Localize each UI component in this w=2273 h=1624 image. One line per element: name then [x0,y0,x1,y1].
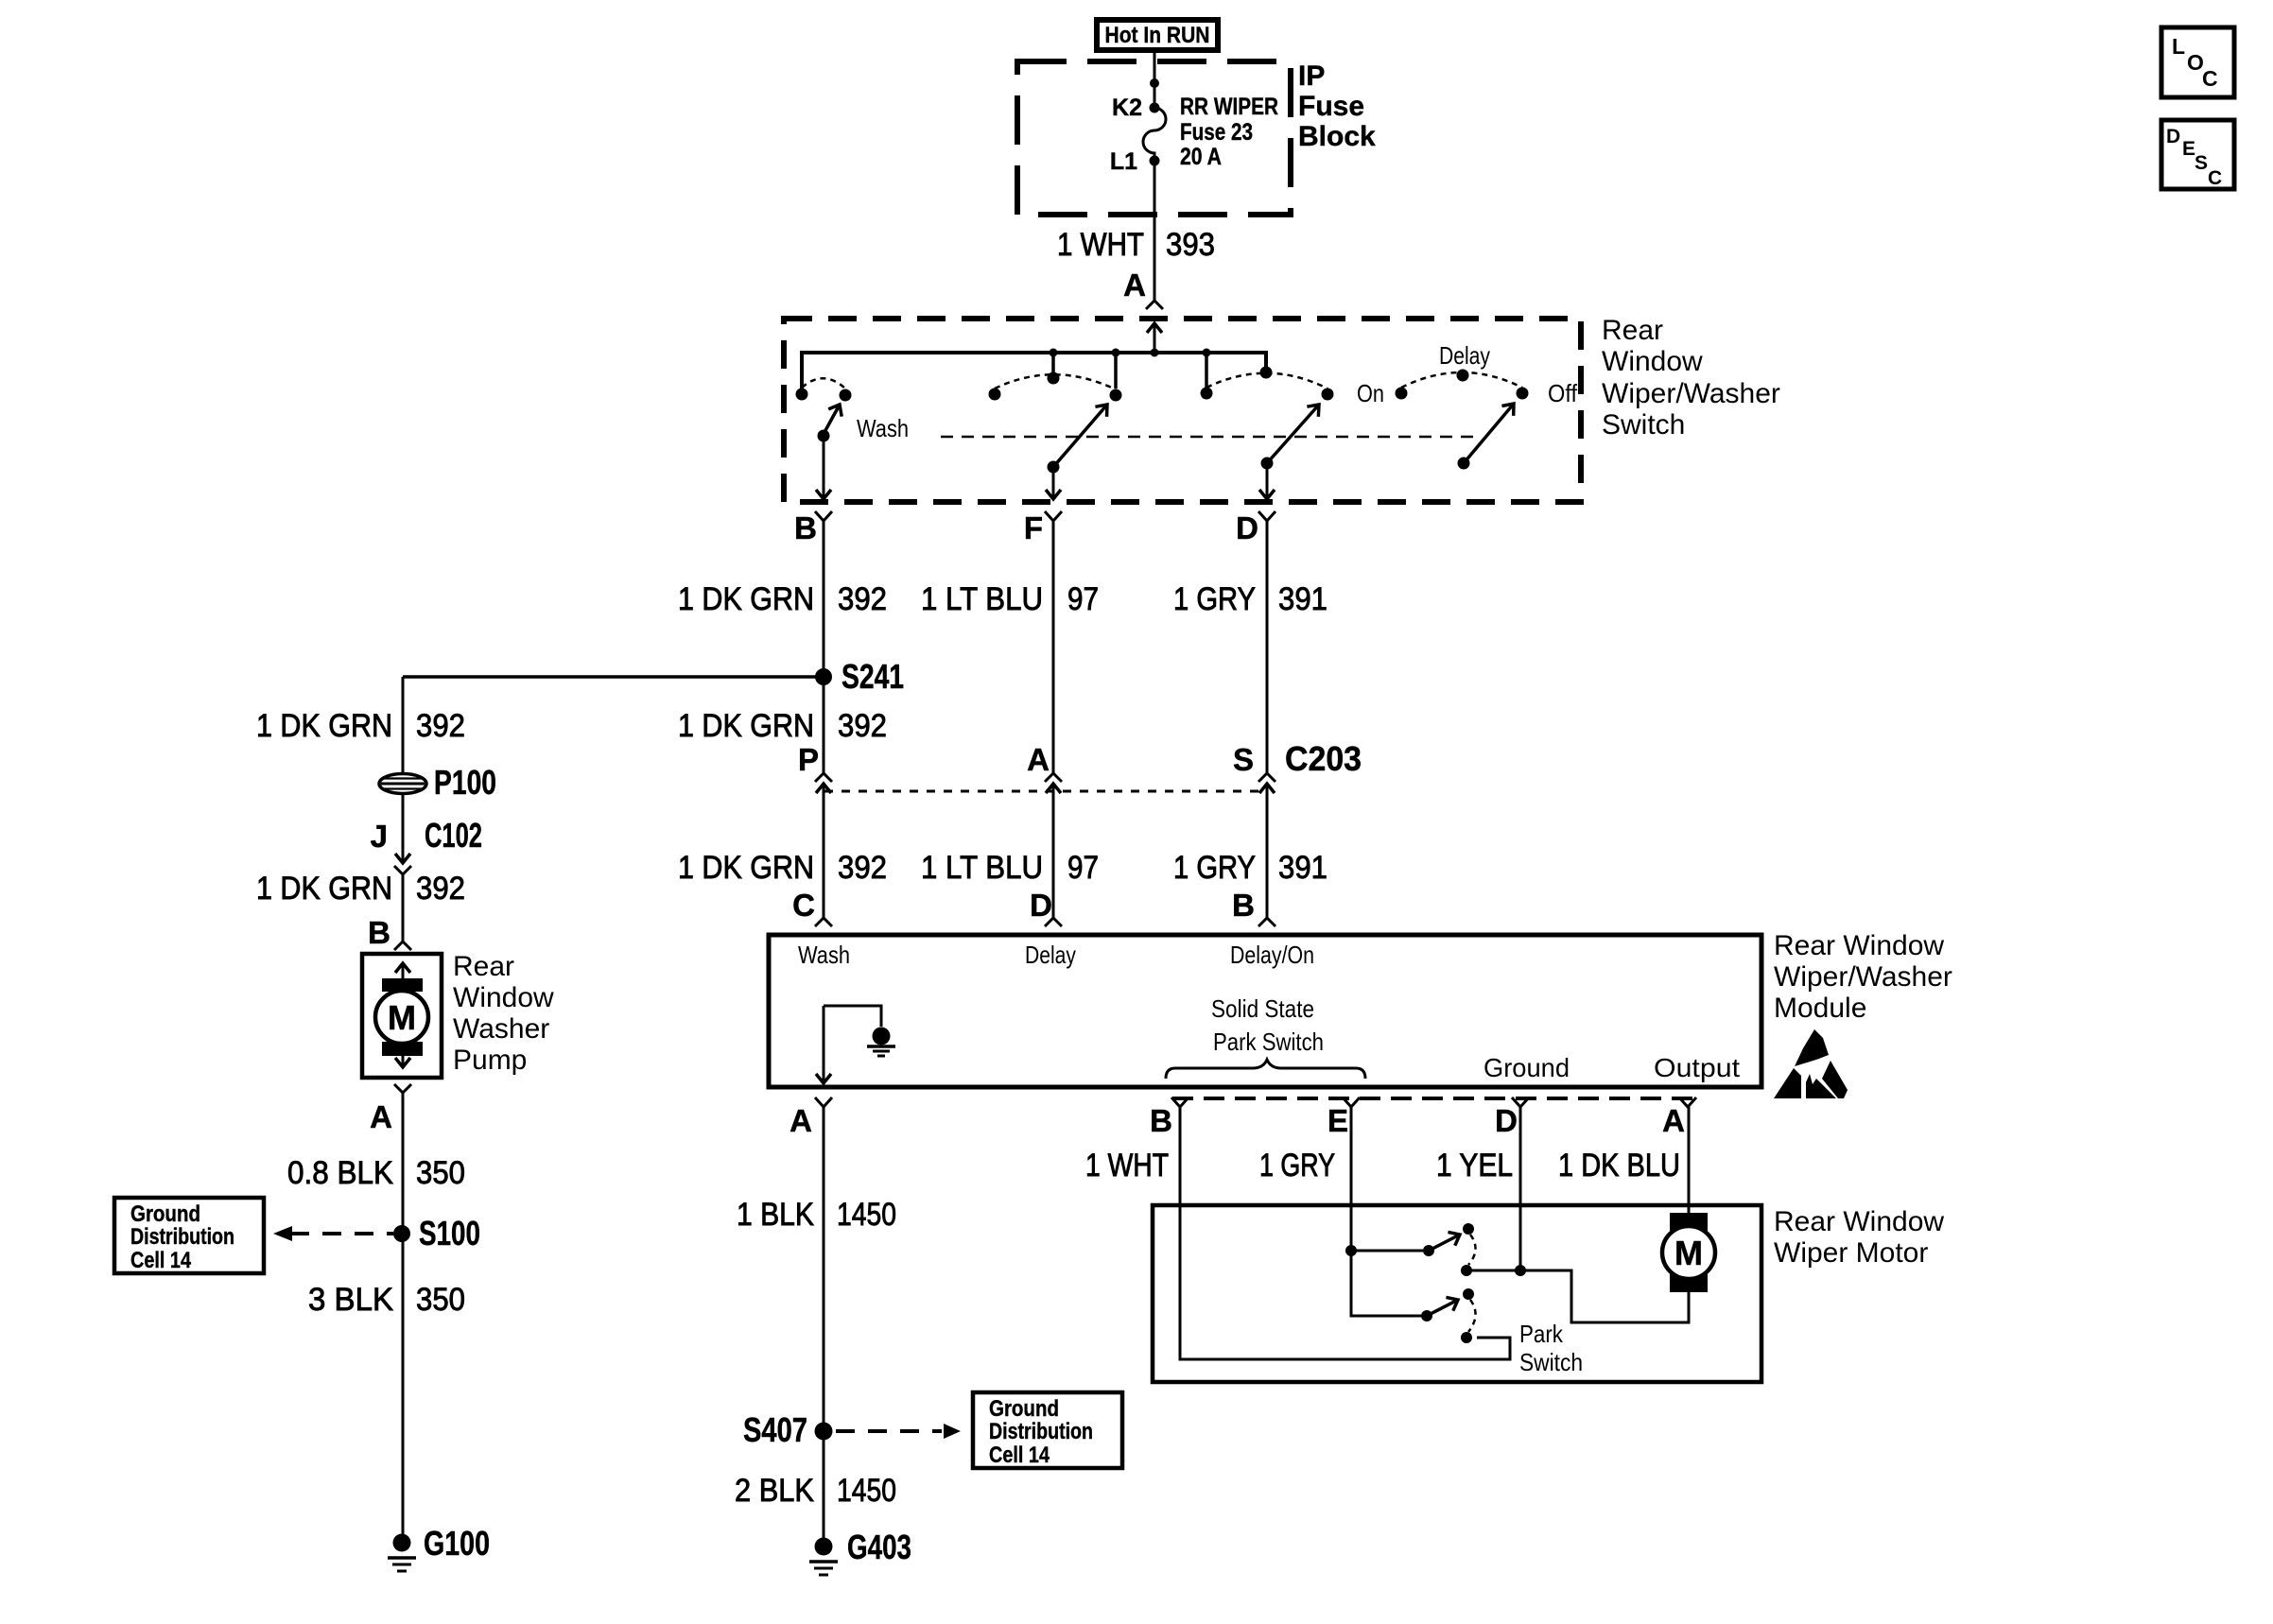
svg-text:Rear: Rear [1602,315,1663,346]
svg-text:1 DK GRN: 1 DK GRN [256,708,392,744]
svg-text:391: 391 [1278,850,1327,886]
svg-text:1 LT BLU: 1 LT BLU [921,850,1043,886]
svg-text:1 GRY: 1 GRY [1173,581,1256,617]
svg-text:3 BLK: 3 BLK [308,1282,393,1318]
svg-text:D: D [1030,888,1052,923]
svg-text:1 DK GRN: 1 DK GRN [256,871,392,907]
svg-text:P100: P100 [434,763,496,802]
svg-text:B: B [1150,1103,1172,1138]
svg-text:C: C [2202,66,2218,91]
svg-text:A: A [1662,1103,1685,1138]
svg-text:1 LT BLU: 1 LT BLU [921,581,1043,617]
svg-text:Wiper/Washer: Wiper/Washer [1774,961,1952,993]
svg-text:D: D [1236,510,1258,545]
svg-text:Rear Window: Rear Window [1774,930,1944,961]
svg-text:Wiper/Washer: Wiper/Washer [1602,378,1780,409]
svg-text:A: A [789,1103,812,1138]
svg-text:Solid State: Solid State [1211,994,1314,1023]
svg-text:A: A [370,1099,392,1134]
svg-text:Washer: Washer [453,1013,549,1045]
svg-text:Delay: Delay [1439,341,1490,370]
svg-text:On: On [1357,379,1384,407]
svg-text:Switch: Switch [1519,1348,1583,1376]
svg-text:Delay: Delay [1025,941,1076,969]
svg-text:2 BLK: 2 BLK [735,1473,814,1509]
svg-text:20 A: 20 A [1180,144,1222,170]
svg-text:1 GRY: 1 GRY [1173,850,1256,886]
svg-text:0.8 BLK: 0.8 BLK [287,1155,393,1191]
svg-text:Wash: Wash [857,414,909,442]
svg-text:350: 350 [416,1155,465,1191]
svg-text:S241: S241 [842,657,904,696]
svg-text:392: 392 [416,708,465,744]
svg-text:392: 392 [838,708,887,744]
svg-text:Module: Module [1774,993,1866,1024]
svg-text:B: B [1232,888,1255,923]
svg-text:L: L [2172,34,2185,59]
svg-text:Rear Window: Rear Window [1774,1206,1944,1237]
svg-text:Wash: Wash [798,941,850,969]
svg-text:1 DK GRN: 1 DK GRN [678,708,814,744]
svg-text:1450: 1450 [837,1473,896,1509]
svg-text:G403: G403 [847,1528,911,1566]
svg-text:Window: Window [1602,346,1703,377]
svg-text:Distribution: Distribution [130,1224,234,1250]
svg-text:S: S [2195,152,2208,174]
svg-text:B: B [794,510,817,545]
svg-text:Rear: Rear [453,951,514,982]
svg-text:IP: IP [1298,60,1325,92]
svg-text:C102: C102 [425,816,482,855]
svg-text:C: C [792,888,815,923]
svg-text:P: P [798,742,819,777]
svg-text:Park: Park [1519,1320,1564,1348]
svg-text:D: D [1495,1103,1518,1138]
svg-text:1 DK GRN: 1 DK GRN [678,850,814,886]
svg-text:A: A [1123,268,1146,302]
svg-text:G100: G100 [424,1524,490,1563]
svg-text:Cell 14: Cell 14 [130,1248,192,1273]
svg-text:Fuse: Fuse [1298,91,1364,122]
svg-text:M: M [1674,1234,1703,1272]
svg-text:A: A [1027,742,1050,777]
svg-text:S407: S407 [743,1410,807,1449]
svg-text:392: 392 [416,871,465,907]
svg-text:E: E [2182,138,2195,160]
svg-text:1 GRY: 1 GRY [1259,1148,1335,1183]
svg-text:1 WHT: 1 WHT [1057,227,1144,263]
svg-text:393: 393 [1166,227,1215,263]
svg-text:1450: 1450 [837,1197,896,1233]
svg-text:1 WHT: 1 WHT [1085,1148,1169,1183]
svg-text:350: 350 [416,1282,465,1318]
svg-text:L1: L1 [1110,148,1137,175]
svg-text:Fuse 23: Fuse 23 [1180,119,1253,146]
svg-text:J: J [371,819,388,854]
svg-text:Pump: Pump [453,1045,527,1076]
svg-text:D: D [2166,126,2180,147]
svg-text:B: B [368,915,390,950]
svg-text:S: S [1233,742,1254,777]
svg-text:F: F [1024,510,1043,545]
svg-text:Output: Output [1654,1053,1740,1082]
svg-text:S100: S100 [419,1214,480,1253]
svg-text:392: 392 [838,850,887,886]
svg-text:1 DK BLU: 1 DK BLU [1558,1148,1680,1183]
svg-text:97: 97 [1067,581,1099,617]
svg-text:Park Switch: Park Switch [1213,1028,1324,1056]
svg-text:Wiper Motor: Wiper Motor [1774,1237,1928,1269]
svg-text:Switch: Switch [1602,409,1685,441]
svg-text:M: M [388,998,416,1037]
svg-text:Cell 14: Cell 14 [989,1443,1050,1468]
svg-text:Off: Off [1548,379,1578,407]
svg-text:Delay/On: Delay/On [1230,941,1314,969]
svg-text:1 DK GRN: 1 DK GRN [678,581,814,617]
svg-text:Window: Window [453,982,554,1013]
svg-text:K2: K2 [1112,95,1142,121]
svg-text:392: 392 [838,581,887,617]
svg-text:Ground: Ground [130,1201,200,1227]
svg-text:97: 97 [1067,850,1099,886]
svg-text:391: 391 [1278,581,1327,617]
svg-text:Block: Block [1298,121,1376,152]
svg-text:Ground: Ground [989,1396,1059,1422]
svg-text:C203: C203 [1285,739,1362,778]
svg-text:RR WIPER: RR WIPER [1180,94,1278,120]
svg-text:Distribution: Distribution [989,1419,1093,1444]
svg-text:C: C [2208,167,2222,189]
svg-text:1 YEL: 1 YEL [1436,1148,1513,1183]
svg-text:Ground: Ground [1484,1053,1570,1082]
svg-text:1 BLK: 1 BLK [737,1197,814,1233]
svg-text:Hot In RUN: Hot In RUN [1105,23,1210,48]
svg-text:E: E [1327,1103,1348,1138]
